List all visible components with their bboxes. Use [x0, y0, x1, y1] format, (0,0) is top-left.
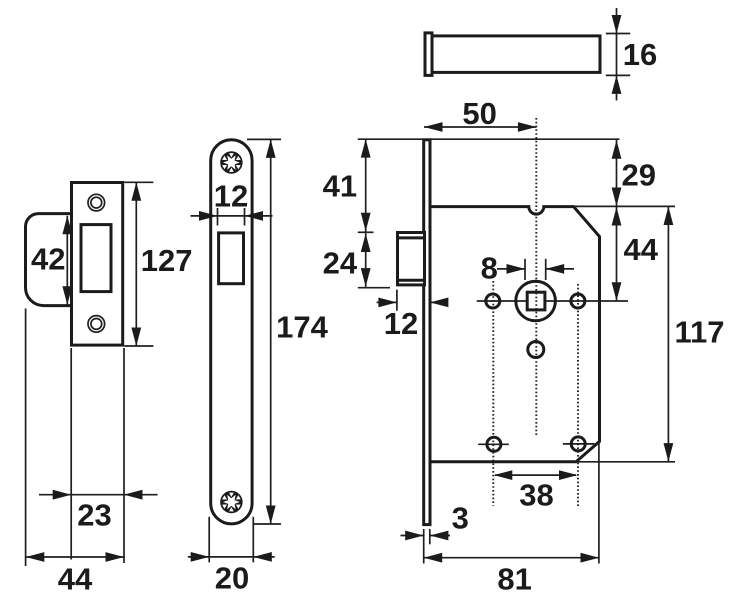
dimension 8 lines and arrows [497, 268, 525, 270]
svg-text:117: 117 [674, 315, 724, 350]
svg-text:3: 3 [452, 501, 469, 536]
dimension 44 lock line and arrows [616, 207, 618, 301]
extension line case top right (for 29/44/117) [574, 205, 675, 207]
lock case outline with notch and chamfers [430, 207, 600, 462]
svg-text:12: 12 [214, 179, 248, 214]
dimension 81 line and arrows [424, 557, 599, 559]
extension line case bottom right (for 117) [576, 461, 675, 463]
faceplate front outline [211, 140, 252, 524]
dimension 38 line and arrows [495, 474, 576, 476]
dimension 41 line and arrows [365, 139, 367, 232]
dimension 3 ticks [423, 529, 425, 564]
bottom right hole [571, 437, 585, 451]
dimension 20 line and arrows [188, 556, 275, 558]
spindle square hole [527, 292, 545, 310]
strike plate latch cutout [81, 225, 111, 292]
strike plate body [72, 183, 123, 346]
latch bolt [398, 233, 425, 285]
dimension 16 extension ticks [606, 33, 630, 35]
hole below spindle [528, 342, 544, 358]
svg-text:42: 42 [31, 242, 65, 277]
dimension 3 lines and arrows [401, 535, 424, 537]
centerline dotted vertical middle [535, 118, 537, 436]
svg-text:8: 8 [481, 251, 498, 286]
svg-text:174: 174 [276, 310, 328, 345]
svg-text:23: 23 [77, 498, 111, 533]
dimension 12 ticks [217, 208, 219, 226]
dimension 117 line and arrows [667, 207, 669, 462]
dimension 8 ticks [524, 259, 526, 280]
faceplate latch cutout [219, 233, 244, 284]
faceplate bar front [424, 140, 430, 525]
spindle row crosshair line [477, 300, 628, 302]
svg-text:127: 127 [141, 243, 193, 278]
hole right of spindle [571, 294, 585, 308]
svg-text:29: 29 [621, 158, 655, 193]
dimension 12 latch lines and arrows [377, 301, 397, 303]
svg-text:24: 24 [323, 245, 358, 280]
dimension 16 line and arrows [616, 8, 618, 101]
svg-text:38: 38 [519, 478, 553, 513]
dimension 29 line and arrows [616, 140, 618, 206]
svg-text:44: 44 [623, 232, 658, 267]
dimension 12 latch tick [396, 290, 398, 311]
svg-text:12: 12 [384, 306, 418, 341]
svg-text:20: 20 [215, 561, 249, 596]
extension line top of faceplate (left, for 41) [358, 138, 423, 140]
extension line latch bottom (for 24) [358, 287, 390, 289]
strike plate extension lines down [25, 309, 27, 567]
bottom torx screw [222, 492, 242, 512]
dimension 44 line and arrows [26, 556, 124, 558]
dimension 127 extension lines [124, 181, 153, 183]
strike plate bottom screw hole [88, 316, 105, 333]
dimension 174 line and arrows [270, 139, 272, 524]
svg-text:41: 41 [323, 169, 357, 204]
bottom left hole [487, 437, 501, 451]
dimension 12 line and arrows [191, 215, 273, 217]
dimension 24 line and arrows [365, 233, 367, 287]
dimension 42 line and arrows [66, 216, 68, 305]
faceplate side-view end cap [425, 33, 432, 76]
dimension 20 ticks [208, 517, 210, 563]
dimension 127 line and arrows [135, 182, 137, 346]
centerline dotted vertical left [492, 281, 494, 506]
faceplate side-view bar [432, 36, 600, 73]
spindle follower circle [516, 281, 556, 321]
svg-text:16: 16 [623, 37, 657, 72]
svg-text:50: 50 [462, 96, 496, 131]
svg-text:81: 81 [497, 562, 531, 597]
dimension 50 line and arrows [424, 126, 536, 128]
dimension 23 line and arrows [39, 494, 158, 496]
hole left of spindle [486, 294, 500, 308]
extension line case right edge (for 81) [598, 441, 600, 564]
strike plate top screw hole [88, 194, 105, 211]
strike plate lip [26, 214, 72, 306]
bottom hole crosshairs [478, 443, 509, 445]
latch bolt inner bevel lines [396, 236, 424, 239]
extension line top of faceplate (right, for 29) [430, 138, 620, 140]
dimension 174 extension lines [247, 138, 281, 140]
top torx screw [222, 153, 242, 173]
extension line latch top (for 41/24) [358, 231, 374, 233]
centerline dotted vertical right [577, 284, 579, 506]
svg-text:44: 44 [58, 562, 93, 597]
